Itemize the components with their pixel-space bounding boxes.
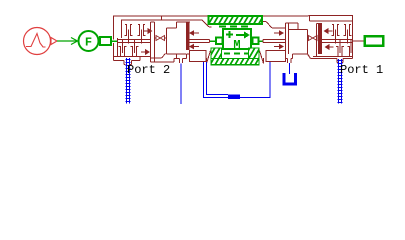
wire rod to M left <box>210 40 216 42</box>
feedback wire junction blob <box>228 95 240 100</box>
right chamber hat <box>286 23 308 30</box>
wire source to F <box>57 38 78 45</box>
housing cradle left column <box>211 48 222 59</box>
housing hatched cap <box>209 16 263 24</box>
left piston bar <box>186 23 190 51</box>
right chamber arrow down <box>274 45 283 49</box>
left chamber arrow up <box>190 31 199 35</box>
M right flange connector <box>253 38 259 45</box>
left pilot arrow up <box>144 29 152 33</box>
right drain box <box>266 51 286 62</box>
right nozzle N6 (up) <box>344 25 352 44</box>
left pilot spool walls <box>151 22 155 62</box>
wire F to valve <box>111 40 118 42</box>
cradle left red wedge <box>207 51 211 64</box>
signal source S1 <box>24 28 58 55</box>
left pilot arrow down <box>141 50 149 54</box>
connector box of F <box>100 37 111 45</box>
right chamber <box>293 30 311 59</box>
wire valve to output <box>353 40 365 42</box>
force converter U1 (F) <box>79 31 99 51</box>
right nozzle N5 (up) <box>332 25 340 44</box>
plus sign <box>226 31 233 38</box>
right orifice (bowtie) <box>308 36 318 41</box>
right pilot arrow up <box>325 29 333 33</box>
right pilot spool (filled) <box>316 24 318 57</box>
left orifice (bowtie) <box>155 36 167 41</box>
dashed guide bottom <box>224 53 248 55</box>
tank stub <box>286 54 293 63</box>
left chamber <box>167 22 191 54</box>
left spool centerline <box>118 40 151 43</box>
left chamber arrow down <box>190 45 199 49</box>
svg-text:Port 1: Port 1 <box>340 63 383 77</box>
right nozzle N8 (down) <box>348 40 352 57</box>
housing cradle right column <box>249 48 260 59</box>
port line Port 1 <box>338 59 343 104</box>
mass block M <box>223 29 251 49</box>
right nozzle N7 (down) <box>336 40 344 57</box>
output connector <box>365 36 384 46</box>
left nozzle N4 (down) <box>131 40 139 57</box>
dashed guide top <box>219 26 250 28</box>
arrow in M block <box>236 32 250 39</box>
left nozzle N2 (up) <box>138 25 146 44</box>
left bottom frame <box>114 54 190 65</box>
right inner bottom <box>313 56 353 58</box>
svg-text:F: F <box>85 36 92 50</box>
M left flange connector <box>216 38 223 45</box>
right rod from M <box>263 40 286 43</box>
svg-text:Port 2: Port 2 <box>127 63 170 77</box>
valve body outer frame <box>113 16 353 61</box>
left nozzle N3 (down) <box>119 40 127 57</box>
right spool centerline <box>322 40 353 43</box>
left nozzle N1 (up) <box>125 25 133 44</box>
right chamber arrow up <box>274 31 283 35</box>
feedback wire outer <box>204 62 271 98</box>
cradle right red wedge <box>260 51 264 64</box>
right piston walls <box>286 23 289 54</box>
housing cradle bottom bar <box>211 59 259 65</box>
left rod to M <box>190 40 210 43</box>
wire M to rod right <box>259 40 264 42</box>
tank T1 <box>284 63 296 84</box>
right pilot arrow down <box>326 45 334 49</box>
feedback wire inner <box>207 62 229 95</box>
port line Port 2 <box>126 58 131 104</box>
signal wire stub <box>180 64 182 105</box>
right bottom frame <box>311 59 353 63</box>
left drain box <box>190 51 207 62</box>
svg-text:M: M <box>233 38 240 52</box>
left pilot stage inner box <box>114 20 151 57</box>
